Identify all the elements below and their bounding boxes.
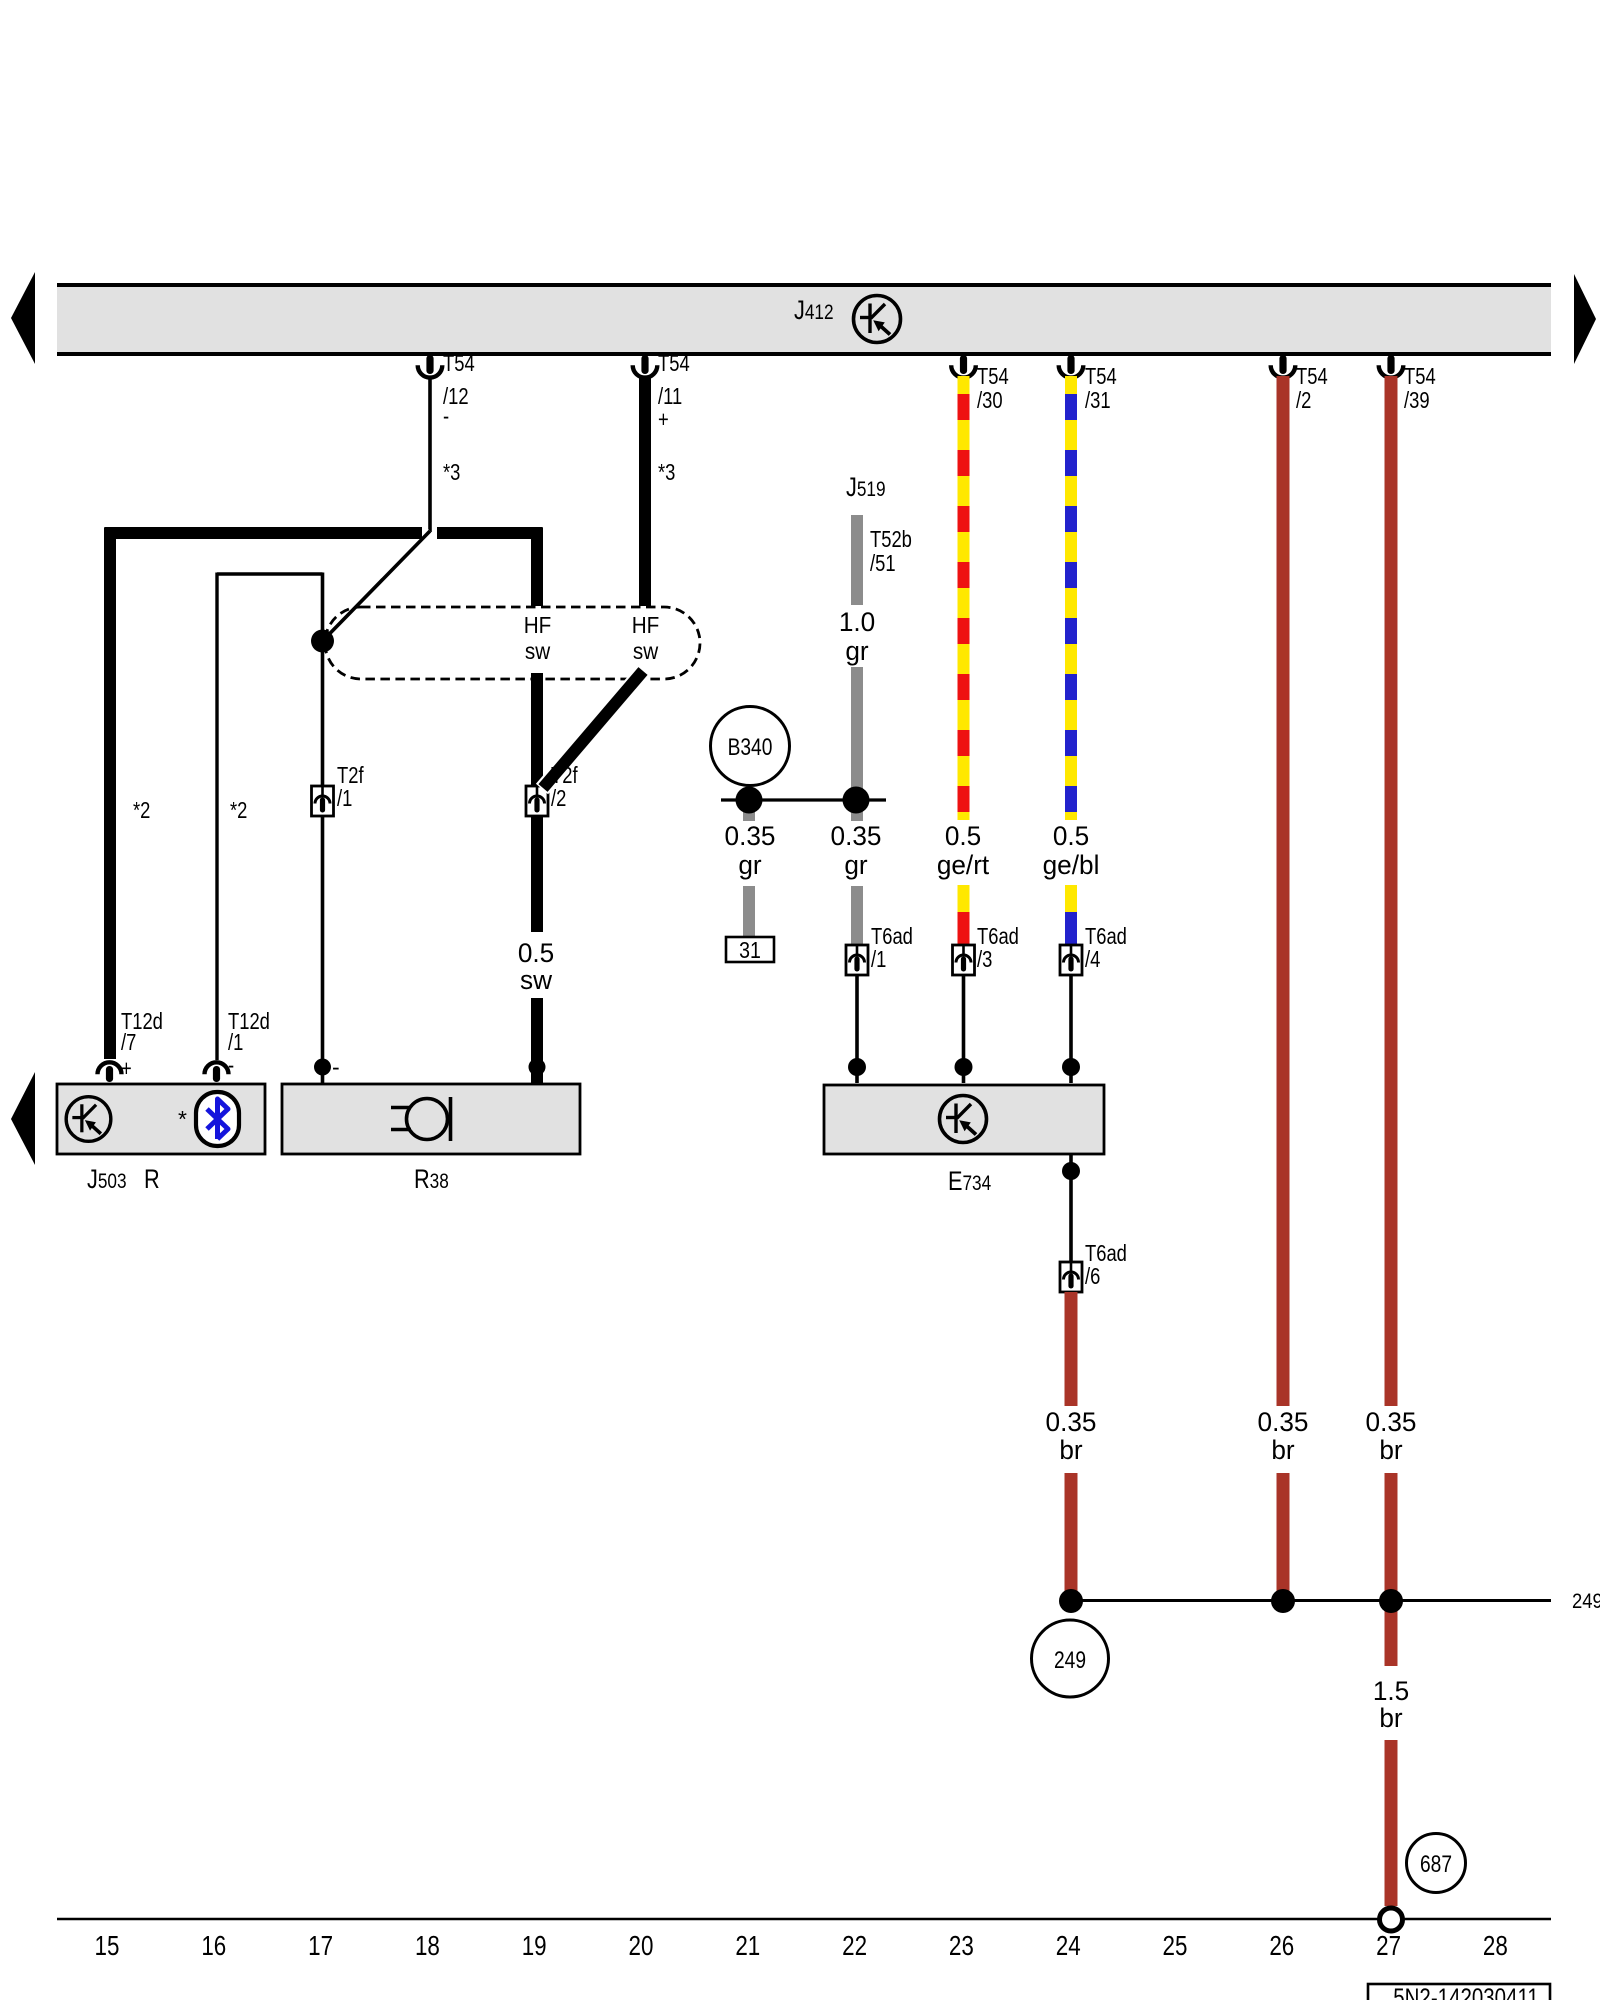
node dot B340 right bbox=[843, 787, 870, 814]
label T6ad/1 bbox=[871, 924, 913, 972]
wire thin below T2f/1 bbox=[321, 812, 325, 1083]
label 0.35 gr mid bbox=[831, 821, 882, 880]
label T54/11 + bbox=[658, 351, 690, 432]
svg-text:E734: E734 bbox=[948, 1167, 991, 1197]
label T54/12 - bbox=[443, 351, 475, 429]
svg-text:/31: /31 bbox=[1085, 388, 1111, 413]
svg-text:br: br bbox=[1271, 1435, 1294, 1465]
svg-text:J503: J503 bbox=[87, 1165, 127, 1195]
label HF sw left column bbox=[524, 612, 552, 664]
bus continuation arrow right bbox=[1574, 274, 1596, 364]
label T6ad/4 bbox=[1085, 924, 1127, 972]
wire br T54/2 lower bbox=[1277, 1473, 1290, 1601]
svg-text:gr: gr bbox=[738, 850, 761, 880]
wire thin T6ad/3 to E734 bbox=[962, 975, 966, 1083]
ground designation box 31 bbox=[726, 937, 774, 962]
component box R38 bbox=[282, 1084, 580, 1154]
svg-text:26: 26 bbox=[1269, 1931, 1294, 1962]
connector T54/31 at bus bbox=[1059, 355, 1084, 378]
wire thick horizontal left run bbox=[105, 527, 423, 539]
wire gr stub below right node bbox=[851, 800, 863, 821]
svg-text:5N2-142030411: 5N2-142030411 bbox=[1393, 1983, 1539, 2000]
svg-text:1.5: 1.5 bbox=[1373, 1676, 1409, 1706]
svg-text:1.0: 1.0 bbox=[839, 607, 875, 637]
node dot B340 left bbox=[736, 787, 763, 814]
wire sw thin from T54/12 bbox=[428, 376, 432, 532]
svg-text:gr: gr bbox=[844, 850, 867, 880]
pin dot R38 right bbox=[529, 1059, 546, 1076]
label 0.35 br mid bbox=[1258, 1407, 1309, 1465]
svg-text:/7: /7 bbox=[121, 1030, 136, 1055]
ground terminal open circle bbox=[1380, 1908, 1403, 1931]
label 0.35 br right bbox=[1366, 1407, 1417, 1465]
wire br to ground 687 bbox=[1385, 1740, 1398, 1906]
label T54/30 bbox=[977, 364, 1009, 413]
wire sw 0.5 below T2f/2 upper bbox=[531, 812, 543, 932]
svg-text:0.5: 0.5 bbox=[518, 938, 554, 968]
wire thick below shield to T2f/2 bbox=[531, 673, 543, 787]
wire gr from J519 upper bbox=[851, 515, 863, 605]
bottom grid line bbox=[57, 1918, 1551, 1921]
label 1.0 gr bbox=[839, 607, 875, 666]
node dot 249 left bbox=[1059, 1589, 1083, 1613]
svg-text:249: 249 bbox=[1054, 1646, 1086, 1674]
svg-text:27: 27 bbox=[1376, 1931, 1401, 1962]
svg-text:sw: sw bbox=[633, 638, 658, 664]
svg-text:*2: *2 bbox=[230, 798, 247, 823]
wire junction line B340 bbox=[721, 798, 886, 801]
bus continuation arrow at J503 bbox=[11, 1072, 35, 1165]
connector T54/12 at bus bbox=[418, 355, 443, 378]
control unit icon in E734 bbox=[940, 1096, 987, 1143]
label T54/31 bbox=[1085, 364, 1117, 413]
svg-text:/4: /4 bbox=[1085, 947, 1100, 972]
wire thin loop right leg bbox=[321, 573, 325, 787]
bus continuation arrow left bbox=[11, 272, 35, 364]
connector T6ad/3 bbox=[953, 945, 975, 975]
ground point circle 687 bbox=[1407, 1834, 1466, 1893]
wire gr to T6ad/1 bbox=[851, 886, 863, 946]
svg-text:sw: sw bbox=[525, 638, 550, 664]
svg-text:J519: J519 bbox=[846, 473, 886, 503]
svg-text:17: 17 bbox=[308, 1931, 333, 1962]
wire thin loop horizontal bbox=[217, 572, 323, 575]
svg-text:28: 28 bbox=[1483, 1931, 1508, 1962]
svg-text:T2f: T2f bbox=[337, 763, 364, 788]
wire ge/bl lower bbox=[1065, 885, 1077, 946]
node dot 249 mid bbox=[1271, 1589, 1295, 1613]
wire ge/rt upper bbox=[958, 376, 970, 820]
connector T6ad/1 bbox=[846, 945, 868, 975]
svg-text:/2: /2 bbox=[1296, 388, 1311, 413]
label T12d/7 + bbox=[121, 1009, 163, 1081]
svg-text:31: 31 bbox=[739, 938, 761, 964]
svg-text:687: 687 bbox=[1420, 1850, 1452, 1878]
svg-text:22: 22 bbox=[842, 1931, 867, 1962]
svg-text:-: - bbox=[443, 404, 449, 429]
svg-text:0.35: 0.35 bbox=[831, 821, 882, 851]
svg-text:/30: /30 bbox=[977, 388, 1003, 413]
wire thin T6ad/1 to E734 bbox=[855, 975, 859, 1083]
svg-text:gr: gr bbox=[845, 636, 868, 666]
svg-text:T6ad: T6ad bbox=[1085, 1241, 1127, 1266]
pin dot E734 third bbox=[1062, 1058, 1080, 1076]
svg-text:sw: sw bbox=[520, 965, 553, 995]
microphone icon in R38 bbox=[391, 1097, 451, 1141]
svg-text:R38: R38 bbox=[414, 1165, 449, 1195]
shielded cable oval HF bbox=[325, 607, 700, 679]
svg-text:ge/rt: ge/rt bbox=[937, 850, 990, 880]
label 0.5 sw bbox=[518, 938, 554, 995]
svg-text:T54: T54 bbox=[658, 351, 690, 376]
connector T54/2 at bus bbox=[1271, 355, 1296, 378]
label T12d/1 - bbox=[228, 1009, 270, 1078]
label T54/2 bbox=[1296, 364, 1328, 413]
control unit icon in J412 bbox=[854, 296, 901, 343]
svg-text:25: 25 bbox=[1163, 1931, 1188, 1962]
control unit icon in J503 bbox=[66, 1097, 111, 1142]
wire ge/bl upper bbox=[1065, 376, 1077, 820]
svg-text:0.5: 0.5 bbox=[1053, 821, 1089, 851]
label 0.35 gr left bbox=[725, 821, 776, 880]
label HF sw right column bbox=[632, 612, 660, 664]
svg-text:/1: /1 bbox=[871, 947, 886, 972]
label T54/39 bbox=[1404, 364, 1436, 413]
connector T54/39 at bus bbox=[1379, 355, 1404, 378]
wire sw thick T54/11 to shield bbox=[639, 376, 651, 606]
svg-text:*3: *3 bbox=[658, 460, 675, 485]
svg-text:B340: B340 bbox=[728, 733, 773, 761]
svg-text:21: 21 bbox=[735, 1931, 760, 1962]
label 0.5 ge/rt bbox=[937, 821, 990, 880]
pin dot below E734 bbox=[1062, 1162, 1080, 1180]
connector T12d/7 cup bbox=[98, 1062, 122, 1082]
node junction dot left bbox=[311, 630, 334, 653]
svg-text:249: 249 bbox=[1572, 1590, 1600, 1613]
svg-text:T6ad: T6ad bbox=[977, 924, 1019, 949]
svg-text:T54: T54 bbox=[443, 351, 475, 376]
svg-text:T54: T54 bbox=[1404, 364, 1436, 389]
wire gr from J519 lower bbox=[851, 667, 863, 800]
svg-text:*: * bbox=[178, 1106, 187, 1132]
svg-text:+: + bbox=[658, 407, 669, 432]
label T6ad/6 bbox=[1085, 1241, 1127, 1289]
svg-text:T54: T54 bbox=[1085, 364, 1117, 389]
svg-text:/11: /11 bbox=[658, 384, 682, 409]
label T2f/2 bbox=[551, 763, 578, 811]
wire thick vertical to shield bbox=[531, 528, 543, 607]
svg-text:24: 24 bbox=[1056, 1931, 1081, 1962]
pin dot R38 left bbox=[314, 1059, 331, 1076]
connector T2f/1 bbox=[312, 786, 334, 816]
wire gr to ground 31 bbox=[743, 886, 755, 938]
wire br T54/39 upper bbox=[1385, 376, 1398, 1406]
svg-text:br: br bbox=[1379, 1703, 1402, 1733]
svg-text:R: R bbox=[144, 1165, 160, 1195]
svg-text:br: br bbox=[1379, 1435, 1402, 1465]
svg-text:/6: /6 bbox=[1085, 1264, 1100, 1289]
wire br T54/39 lower bbox=[1385, 1473, 1398, 1601]
svg-text:/2: /2 bbox=[551, 786, 566, 811]
svg-text:*3: *3 bbox=[443, 460, 460, 485]
svg-text:ge/bl: ge/bl bbox=[1043, 850, 1100, 880]
label 0.35 br left bbox=[1046, 1407, 1097, 1465]
wire thick vertical left leg bbox=[104, 528, 116, 1060]
svg-text:15: 15 bbox=[95, 1931, 120, 1962]
connector T6ad/6 bbox=[1060, 1262, 1082, 1292]
svg-text:T2f: T2f bbox=[551, 763, 578, 788]
connector T6ad/4 bbox=[1060, 945, 1082, 975]
wire br from T6ad/6 lower bbox=[1065, 1473, 1078, 1601]
sensor circle B340 bbox=[711, 707, 790, 786]
svg-text:0.35: 0.35 bbox=[1366, 1407, 1417, 1437]
wire gr stub below left node bbox=[743, 800, 755, 821]
svg-text:-: - bbox=[332, 1054, 340, 1080]
svg-text:T54: T54 bbox=[1296, 364, 1328, 389]
label 1.5 br bbox=[1373, 1676, 1409, 1733]
svg-text:0.5: 0.5 bbox=[945, 821, 981, 851]
label T52b/51 bbox=[870, 527, 912, 576]
svg-text:/1: /1 bbox=[228, 1030, 243, 1055]
node dot 249 right bbox=[1379, 1589, 1403, 1613]
wire br T54/2 upper bbox=[1277, 376, 1290, 1406]
ground junction line 249 bbox=[1070, 1599, 1551, 1602]
wire thick diagonal from shield to T2f/2 bbox=[542, 671, 643, 789]
pin dot E734 second bbox=[955, 1058, 973, 1076]
wire thin T6ad/4 to E734 bbox=[1069, 975, 1073, 1083]
svg-text:/3: /3 bbox=[977, 947, 992, 972]
svg-text:20: 20 bbox=[629, 1931, 654, 1962]
ground point circle 249 bbox=[1032, 1620, 1109, 1697]
svg-text:*2: *2 bbox=[133, 798, 150, 823]
wire diagonal from T54/12 to node bbox=[323, 531, 431, 641]
wire sw 0.5 lower bbox=[531, 998, 543, 1083]
svg-text:18: 18 bbox=[415, 1931, 440, 1962]
connector T54/30 at bus bbox=[951, 355, 976, 378]
svg-text:HF: HF bbox=[524, 612, 552, 638]
svg-text:HF: HF bbox=[632, 612, 660, 638]
connector T2f/2 bbox=[526, 786, 548, 816]
svg-text:/39: /39 bbox=[1404, 388, 1430, 413]
svg-text:23: 23 bbox=[949, 1931, 974, 1962]
wire br from T6ad/6 upper bbox=[1065, 1292, 1078, 1406]
connector T12d/1 cup bbox=[205, 1062, 229, 1082]
label T6ad/3 bbox=[977, 924, 1019, 972]
svg-text:T52b: T52b bbox=[870, 527, 912, 552]
svg-text:T54: T54 bbox=[977, 364, 1009, 389]
svg-text:br: br bbox=[1059, 1435, 1082, 1465]
svg-text:/1: /1 bbox=[337, 786, 352, 811]
svg-text:0.35: 0.35 bbox=[725, 821, 776, 851]
component box E734 bbox=[824, 1085, 1104, 1154]
drawing number box bbox=[1368, 1984, 1550, 2000]
svg-text:0.35: 0.35 bbox=[1046, 1407, 1097, 1437]
svg-text:16: 16 bbox=[201, 1931, 226, 1962]
wire thin loop left leg bbox=[215, 573, 218, 1061]
svg-text:-: - bbox=[228, 1053, 234, 1078]
svg-text:T6ad: T6ad bbox=[871, 924, 913, 949]
label T2f/1 bbox=[337, 763, 364, 811]
wire thin E734 to T6ad/6 bbox=[1069, 1154, 1073, 1263]
wire ge/rt lower bbox=[958, 885, 970, 946]
bus bar J412 bbox=[57, 285, 1551, 354]
svg-text:0.35: 0.35 bbox=[1258, 1407, 1309, 1437]
pin dot E734 first bbox=[848, 1058, 866, 1076]
connector T54/11 at bus bbox=[633, 355, 658, 378]
svg-text:/51: /51 bbox=[870, 551, 896, 576]
label 0.5 ge/bl bbox=[1043, 821, 1100, 880]
svg-text:19: 19 bbox=[522, 1931, 547, 1962]
svg-text:T6ad: T6ad bbox=[1085, 924, 1127, 949]
component box J503 bbox=[57, 1084, 265, 1154]
wire br below junction bbox=[1385, 1601, 1398, 1666]
bluetooth module icon bbox=[196, 1092, 239, 1146]
